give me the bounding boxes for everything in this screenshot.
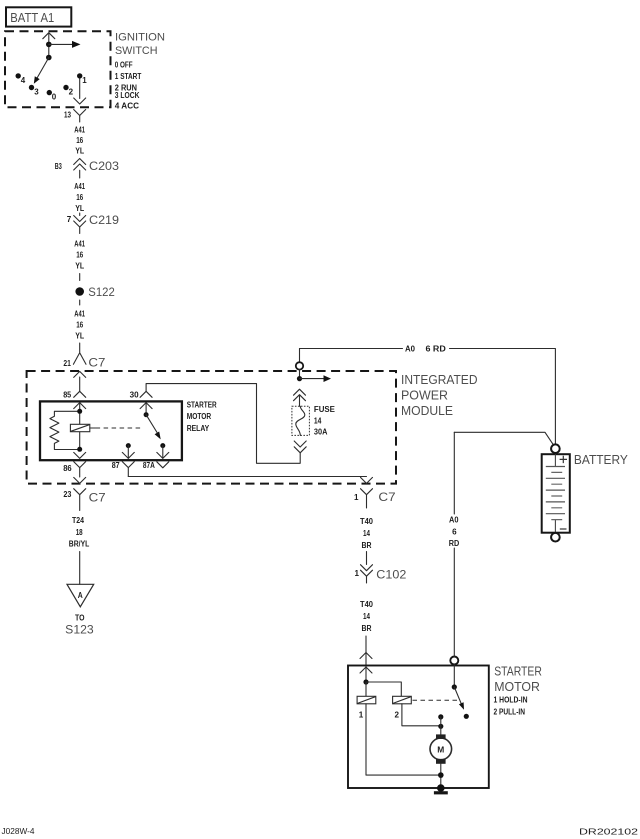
- solenoid terminal: [450, 657, 458, 690]
- relay pin 30: [130, 390, 153, 417]
- coil 1 wire to ground node: [366, 704, 441, 775]
- svg-text:T24: T24: [72, 516, 84, 525]
- svg-text:A41: A41: [74, 126, 85, 135]
- svg-text:C102: C102: [376, 568, 406, 582]
- connector C219 pin 7: [67, 213, 120, 234]
- svg-text:B3: B3: [55, 162, 62, 171]
- svg-text:23: 23: [63, 490, 71, 499]
- svg-text:30A: 30A: [314, 428, 328, 437]
- svg-text:SWITCH: SWITCH: [115, 45, 158, 57]
- svg-text:C219: C219: [89, 213, 119, 227]
- wire label A41 16 YL: [74, 182, 85, 213]
- svg-text:1: 1: [359, 711, 364, 720]
- svg-text:J028W-4: J028W-4: [2, 827, 36, 836]
- wire label A41 16 YL: [74, 240, 85, 271]
- off-page splice A: [67, 584, 94, 607]
- svg-text:87A: 87A: [143, 461, 155, 470]
- starter feed junction: [363, 679, 401, 696]
- relay pin 87: [112, 452, 135, 476]
- svg-text:18: 18: [76, 528, 83, 537]
- svg-text:14: 14: [363, 529, 370, 538]
- svg-text:TO: TO: [75, 614, 85, 623]
- svg-text:1: 1: [355, 569, 360, 578]
- svg-text:6 RD: 6 RD: [426, 345, 447, 354]
- svg-text:16: 16: [76, 251, 83, 260]
- connector C102 pin 1: [355, 565, 407, 583]
- svg-text:1: 1: [82, 76, 87, 85]
- battery feed box BATT A1: [6, 7, 71, 26]
- svg-text:S123: S123: [65, 622, 94, 636]
- wire A0 6 RD to battery: [300, 345, 556, 445]
- svg-text:0 OFF: 0 OFF: [115, 61, 133, 70]
- svg-text:YL: YL: [75, 204, 84, 213]
- svg-text:A: A: [78, 591, 83, 600]
- fuse 14 30A: [292, 405, 336, 437]
- svg-text:6: 6: [452, 528, 457, 537]
- battery feed wire to solenoid: [449, 432, 460, 656]
- junction and arrow: [297, 370, 331, 382]
- wire to splice A: [79, 552, 81, 585]
- svg-text:RD: RD: [449, 539, 460, 548]
- svg-text:14: 14: [314, 417, 322, 426]
- svg-text:S122: S122: [88, 285, 115, 299]
- integrated power module label: [401, 372, 478, 418]
- wire entering IPM pin 21: [74, 371, 86, 391]
- svg-text:YL: YL: [75, 332, 84, 341]
- connector C7 pin 21: [63, 343, 105, 370]
- ignition contact 2: [63, 85, 73, 97]
- svg-text:C7: C7: [89, 490, 106, 504]
- svg-text:A0: A0: [405, 345, 416, 354]
- svg-text:4: 4: [21, 76, 26, 85]
- svg-text:1: 1: [354, 493, 359, 502]
- wire label T40 14 BR: [360, 600, 374, 633]
- connector C7 pin 1: [354, 489, 396, 508]
- svg-text:21: 21: [63, 359, 71, 368]
- coil 2 wire to motor node: [402, 704, 441, 726]
- relay contact 87A dot: [160, 443, 165, 458]
- ignition contact 3: [29, 85, 39, 97]
- relay switch blade: [146, 415, 161, 440]
- wire to splice: [79, 274, 81, 281]
- svg-text:3: 3: [34, 88, 39, 97]
- connector pin 13: [64, 110, 86, 123]
- wire battery positive branch: [454, 432, 553, 444]
- svg-text:14: 14: [363, 612, 370, 621]
- ignition switch label: [115, 32, 165, 57]
- svg-text:RELAY: RELAY: [187, 424, 210, 433]
- svg-text:M: M: [437, 746, 444, 755]
- ignition switch enclosure: [5, 31, 111, 107]
- ground: [434, 784, 448, 793]
- svg-text:BR: BR: [362, 541, 372, 550]
- svg-text:STARTER: STARTER: [494, 664, 542, 679]
- ignition contact 1: [77, 73, 87, 85]
- relay pin 87A: [143, 452, 169, 470]
- battery feed terminal: [296, 349, 303, 370]
- wire label A41 16 YL: [74, 126, 85, 156]
- svg-text:30: 30: [130, 390, 140, 399]
- svg-text:0: 0: [52, 93, 57, 102]
- svg-text:7: 7: [67, 215, 72, 224]
- svg-text:85: 85: [63, 390, 71, 399]
- relay contact 87 dot: [126, 443, 131, 458]
- relay coil: [70, 424, 95, 431]
- motor feed dots: [438, 714, 443, 734]
- svg-text:BR/YL: BR/YL: [69, 539, 90, 548]
- svg-text:16: 16: [76, 136, 83, 145]
- solenoid mechanical link: [413, 699, 459, 701]
- svg-text:INTEGRATED: INTEGRATED: [401, 372, 478, 387]
- wire ignition pin 1 down: [74, 79, 86, 104]
- starter motor relay box: [40, 400, 217, 460]
- svg-text:DR202102: DR202102: [579, 828, 639, 837]
- label TO S123: [65, 614, 94, 637]
- svg-text:A41: A41: [74, 240, 85, 249]
- svg-text:3 LOCK: 3 LOCK: [115, 91, 140, 100]
- svg-text:1 START: 1 START: [115, 72, 142, 81]
- svg-text:C7: C7: [378, 490, 396, 504]
- svg-text:MOTOR: MOTOR: [494, 679, 540, 694]
- svg-text:1 HOLD-IN: 1 HOLD-IN: [494, 696, 528, 705]
- wire pin 30 to fuse: [146, 384, 300, 464]
- svg-text:16: 16: [76, 193, 83, 202]
- svg-text:FUSE: FUSE: [314, 405, 336, 414]
- wire label T40 14 BR: [360, 517, 374, 550]
- svg-text:STARTER: STARTER: [187, 400, 217, 409]
- svg-text:16: 16: [76, 321, 83, 330]
- svg-text:YL: YL: [75, 262, 84, 271]
- svg-text:C7: C7: [88, 356, 105, 370]
- wire label A41 16 YL: [74, 310, 85, 341]
- hold-in coil 1: [357, 682, 376, 720]
- wire label T24 18 BR/YL: [69, 516, 90, 548]
- svg-text:86: 86: [63, 464, 72, 473]
- svg-text:A0: A0: [449, 516, 459, 525]
- solenoid contact dot: [464, 714, 469, 719]
- wire pin 87 to C7 pin 1: [128, 477, 372, 484]
- svg-text:T40: T40: [360, 517, 374, 526]
- pull-in coil 2: [393, 696, 412, 719]
- connector C203 pin B3: [55, 159, 120, 179]
- fuse entry chevrons: [294, 389, 306, 406]
- svg-text:IGNITION: IGNITION: [115, 32, 165, 44]
- svg-text:4 ACC: 4 ACC: [115, 101, 139, 110]
- svg-text:2: 2: [69, 88, 74, 97]
- svg-text:BATT A1: BATT A1: [10, 10, 54, 25]
- relay coil suppression resistor: [50, 411, 80, 449]
- relay pin 85: [63, 390, 85, 449]
- svg-text:A41: A41: [74, 182, 85, 191]
- svg-text:13: 13: [64, 111, 71, 120]
- svg-text:MOTOR: MOTOR: [187, 412, 212, 421]
- svg-text:2: 2: [395, 711, 400, 720]
- svg-text:87: 87: [112, 461, 120, 470]
- ignition switch position legend: [115, 61, 142, 111]
- connector C7 pin 23: [63, 489, 106, 511]
- solenoid switch blade: [454, 687, 464, 710]
- wire to starter motor: [360, 636, 372, 682]
- starter motor enclosure: [348, 664, 542, 789]
- svg-text:C203: C203: [89, 159, 119, 173]
- svg-text:A41: A41: [74, 310, 85, 319]
- ground node dot: [438, 772, 444, 778]
- ignition contact 0: [47, 90, 57, 102]
- splice S122: [75, 285, 115, 299]
- fuse exit chevrons: [294, 441, 306, 453]
- wire below splice: [79, 300, 81, 305]
- ignition contact 4: [16, 73, 26, 85]
- wire to C102: [366, 552, 368, 565]
- ignition switch rotor: [34, 33, 81, 84]
- battery: [542, 444, 628, 541]
- relay pin 86: [63, 452, 85, 483]
- svg-text:BATTERY: BATTERY: [574, 452, 628, 467]
- integrated power module enclosure: [27, 371, 396, 484]
- starter motor M: [430, 734, 452, 788]
- svg-text:MODULE: MODULE: [401, 403, 453, 418]
- svg-text:BR: BR: [362, 624, 372, 633]
- svg-text:YL: YL: [75, 146, 84, 155]
- svg-text:T40: T40: [360, 600, 374, 609]
- relay coil junction dots: [77, 409, 82, 452]
- svg-text:POWER: POWER: [401, 388, 448, 403]
- relay mechanical link: [96, 427, 142, 429]
- svg-text:2 PULL-IN: 2 PULL-IN: [494, 707, 526, 716]
